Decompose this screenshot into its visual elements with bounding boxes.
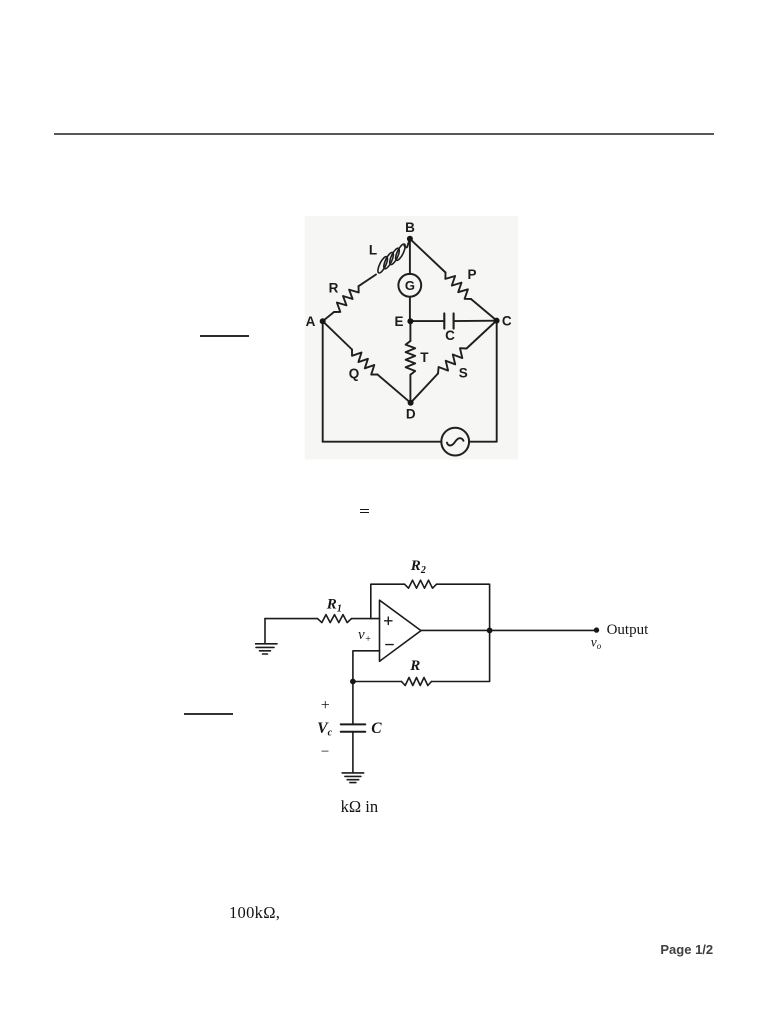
svg-text:C: C [371,720,382,737]
svg-text:+: + [321,697,330,714]
wire capacitor to C [454,320,497,322]
top horizontal rule [54,133,714,135]
svg-text:R1: R1 [326,596,342,614]
svg-text:Q: Q [349,366,360,381]
svg-text:Output: Output [607,622,650,638]
svg-text:C: C [445,328,455,343]
svg-text:S: S [459,366,468,381]
capacitor C plates [341,724,366,731]
blank underline 1 (left of bridge figure) [200,335,249,336]
resistor T [406,341,416,375]
blank underline 2 (left of op-amp figure) [184,713,234,715]
wire E to resistor T [409,321,411,341]
ground bottom [342,773,364,783]
figure 2: op-amp circuit [255,555,660,795]
wire feedback up left [371,584,405,618]
wire E to capacitor C [410,320,444,322]
svg-text:G: G [405,278,415,293]
junction output node [487,628,493,634]
resistor R [334,286,359,312]
svg-text:v+: v+ [358,627,371,645]
svg-text:E: E [394,314,403,329]
wire S to D [411,374,438,403]
wire A to resistor R [323,312,334,321]
svg-text:D: D [406,407,416,422]
svg-text:T: T [420,350,429,365]
wire R2 down to output [437,584,490,630]
node A [320,318,326,324]
wire T to D [409,375,411,403]
wire L to B [404,239,409,247]
op-amp U1 [380,600,422,661]
page number [660,942,713,957]
svg-text:A: A [306,314,316,329]
svg-text:vo: vo [591,635,602,652]
bottom wire right and up to C [469,321,497,442]
svg-text:R: R [409,658,420,674]
svg-text:R: R [329,281,339,296]
node at R / capacitor [350,679,356,685]
node C [494,318,500,324]
resistor R2 [405,580,437,588]
svg-text:B: B [405,220,415,235]
resistor S [438,348,467,373]
wire R to inductor L [359,275,377,287]
equals sign [360,509,369,511]
ground left [264,619,266,644]
wire output down to R [432,630,490,681]
capacitor C plates [444,313,453,328]
wire node to inverting input [353,651,380,682]
svg-text:L: L [369,243,377,258]
wire capacitor to ground [352,732,354,773]
resistor R [402,678,432,686]
svg-text:−: − [321,744,329,760]
text kOhm in [341,797,378,817]
AC source [441,428,469,456]
svg-text:R2: R2 [410,558,426,576]
resistor R1 [318,615,352,623]
scanned figure background [305,216,518,460]
wire R1 to op-amp [352,618,380,620]
inductor L [376,243,407,274]
wire G to E [409,297,411,321]
svg-text:C: C [502,314,512,329]
node D [408,400,414,406]
galvanometer G [398,274,421,297]
svg-text:Vc: Vc [317,720,332,739]
wire R to node [353,681,402,683]
resistor P [445,273,471,300]
text 100kOhm [229,903,280,923]
wire Q to D [378,375,411,403]
svg-text:P: P [467,267,476,282]
wire A down to bottom [322,321,324,442]
bottom wire left [323,441,442,443]
wire B to resistor P [410,239,446,273]
wire ground to R1 [265,618,318,620]
wire A to resistor Q [323,321,352,349]
node E [407,318,413,324]
wire B to galvanometer [409,239,411,274]
wire C to resistor S [467,321,497,349]
resistor Q [352,350,378,375]
wire P to C [471,299,497,321]
figure 1: AC bridge schematic [290,205,550,470]
output terminal dot [594,627,599,632]
output wire [421,629,597,631]
wire node to capacitor [352,682,354,725]
node B [407,236,413,242]
